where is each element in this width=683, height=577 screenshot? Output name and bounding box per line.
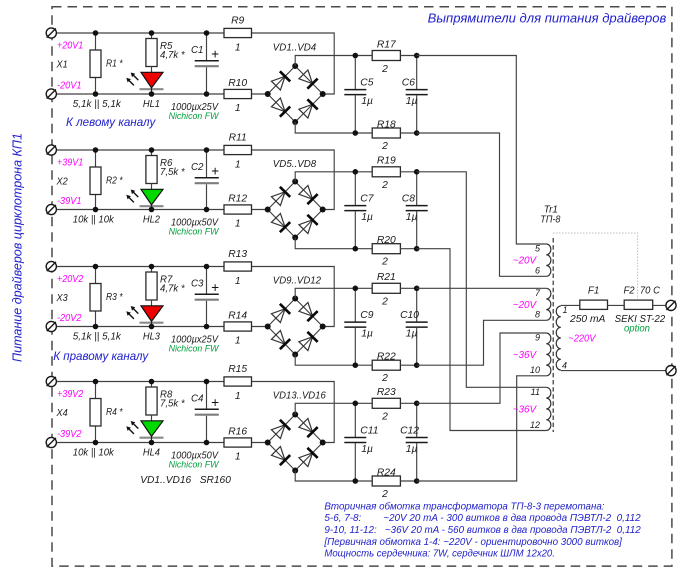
junction R23 left	[353, 401, 359, 407]
svg-text:X4: X4	[56, 408, 68, 419]
junction at R top	[93, 30, 99, 36]
resistor R14	[224, 322, 252, 331]
svg-text:К левому каналу: К левому каналу	[66, 115, 156, 129]
svg-text:1µ: 1µ	[406, 328, 418, 339]
junction R22 left	[353, 362, 359, 368]
svg-text:Выпрямители для питания драйве: Выпрямители для питания драйверов	[428, 11, 667, 26]
junction R18 left	[353, 130, 359, 136]
terminal X3 minus	[46, 321, 56, 331]
svg-text:1: 1	[235, 276, 241, 287]
wire to transformer winding (upper)	[417, 56, 547, 245]
LED arrows HL1	[128, 80, 134, 86]
terminal X1 plus	[46, 28, 56, 38]
wire R10 right to bridge left	[252, 93, 268, 95]
svg-text:-20V2: -20V2	[57, 313, 82, 324]
svg-text:X3: X3	[56, 293, 68, 304]
wire to transformer winding (lower)	[417, 376, 547, 481]
resistor R18	[355, 132, 372, 134]
svg-text:5,1k || 5,1k: 5,1k || 5,1k	[73, 331, 122, 342]
svg-text:1: 1	[563, 305, 568, 315]
junction at HL top	[149, 379, 155, 385]
terminal X2 minus	[46, 204, 56, 214]
resistor R11	[224, 145, 252, 154]
capacitor C7	[354, 172, 356, 205]
LED HL2	[141, 189, 163, 205]
svg-text:2: 2	[381, 297, 388, 308]
svg-text:R24: R24	[377, 467, 396, 478]
svg-text:1µ: 1µ	[361, 212, 373, 223]
terminal X4 minus	[46, 437, 56, 447]
svg-text:1µ: 1µ	[361, 328, 373, 339]
svg-text:R4 *: R4 *	[106, 407, 123, 418]
svg-text:1µ: 1µ	[406, 96, 418, 107]
svg-text:5,1k || 5,1k: 5,1k || 5,1k	[73, 99, 122, 110]
svg-text:VD1..VD16 SR160: VD1..VD16 SR160	[140, 475, 231, 486]
svg-text:9: 9	[535, 333, 540, 343]
wire bridge top to filter rail	[295, 288, 355, 298]
resistor R19	[355, 171, 372, 173]
wire bridge bottom to filter rail	[295, 471, 355, 482]
junction R22 right	[414, 362, 420, 368]
resistor R9	[224, 28, 252, 37]
svg-text:C12: C12	[400, 425, 419, 436]
svg-text:HL4: HL4	[143, 448, 160, 459]
svg-text:HL3: HL3	[143, 332, 160, 343]
svg-text:Мощность сердечника: 7W, серде: Мощность сердечника: 7W, сердечник ШЛМ 1…	[324, 549, 555, 560]
svg-text:option: option	[624, 323, 650, 334]
junction at R top	[93, 147, 99, 153]
svg-text:R2 *: R2 *	[106, 176, 123, 187]
svg-text:X2: X2	[56, 177, 68, 188]
svg-text:R18: R18	[377, 119, 396, 130]
resistor R17	[355, 55, 372, 57]
wire top rail X2	[51, 149, 224, 151]
svg-text:5-6, 7-8: ~20V 20 mA -: 5-6, 7-8: ~20V 20 mA - 300 витков в два …	[324, 513, 641, 524]
junction at HL bottom	[149, 207, 155, 213]
svg-text:6: 6	[535, 266, 540, 276]
svg-text:R14: R14	[228, 311, 247, 322]
svg-text:+39V1: +39V1	[57, 158, 83, 169]
transformer primary winding 1-4	[556, 306, 561, 370]
junction at R bottom	[93, 440, 99, 446]
wire bridge top to filter rail	[295, 56, 355, 67]
svg-text:2: 2	[381, 64, 388, 75]
terminal X1 minus	[46, 89, 56, 99]
svg-text:C1: C1	[191, 45, 204, 56]
svg-text:Nichicon FW: Nichicon FW	[169, 226, 220, 237]
svg-text:8: 8	[535, 310, 540, 320]
junction R17 right	[414, 53, 420, 59]
terminal mains N	[666, 366, 676, 376]
svg-text:4,7k *: 4,7k *	[160, 283, 186, 294]
capacitor C11	[354, 403, 356, 437]
resistor R22	[355, 364, 372, 366]
junction R23 right	[414, 401, 420, 407]
junction at HL top	[149, 147, 155, 153]
junction at HL top	[149, 264, 155, 270]
capacitor C6	[416, 56, 418, 90]
winding 7-8	[546, 288, 551, 320]
svg-text:Nichicon FW: Nichicon FW	[169, 343, 220, 354]
wire bottom rail X2	[51, 209, 224, 211]
svg-text:VD9..VD12: VD9..VD12	[273, 275, 321, 286]
svg-text:+20V1: +20V1	[57, 41, 83, 52]
LED HL3	[141, 306, 163, 322]
svg-text:9-10, 11-12: ~36V 20 mA - 56: 9-10, 11-12: ~36V 20 mA - 560 витков в д…	[324, 525, 641, 536]
resistor R4	[95, 382, 97, 399]
resistor R10	[224, 89, 252, 98]
wire bottom rail X4	[51, 442, 224, 444]
svg-text:2: 2	[381, 412, 388, 423]
svg-text:F1: F1	[588, 285, 600, 296]
wire top rail X1	[51, 32, 224, 34]
wire R15 right, down to bridge right node	[252, 382, 335, 443]
svg-text:250 mA: 250 mA	[569, 314, 606, 325]
wire to transformer winding (lower)	[417, 133, 547, 276]
svg-text:Вторичная обмотка трансформато: Вторичная обмотка трансформатора ТП-8-3 …	[324, 500, 604, 512]
wire bridge bottom to filter rail	[295, 355, 355, 366]
junction at HL top	[149, 30, 155, 36]
capacitor C5	[354, 56, 356, 90]
junction R21 left	[353, 286, 359, 292]
wire bottom rail X1	[51, 93, 224, 95]
LED arrows HL2	[128, 197, 134, 203]
svg-text:10k || 10k: 10k || 10k	[73, 447, 115, 458]
svg-text:1µ: 1µ	[361, 96, 373, 107]
svg-text:4,7k *: 4,7k *	[160, 50, 186, 61]
svg-text:Nichicon FW: Nichicon FW	[169, 111, 220, 122]
terminal X3 plus	[46, 261, 56, 271]
resistor R24	[355, 480, 372, 482]
resistor R3	[95, 267, 97, 284]
svg-text:R16: R16	[228, 427, 247, 438]
svg-text:1: 1	[235, 219, 241, 230]
junction R18 right	[414, 130, 420, 136]
resistor R2	[95, 150, 97, 167]
junction R21 right	[414, 286, 420, 292]
resistor R23	[355, 402, 372, 404]
junction at C bottom	[204, 207, 210, 213]
svg-text:+: +	[211, 46, 219, 61]
fuse F2	[624, 300, 653, 309]
wire pin4 to terminal	[561, 370, 671, 372]
junction at C top	[204, 147, 210, 153]
wire bridge bottom to filter rail	[295, 122, 355, 133]
svg-text:[Первичная обмотка 1-4: ~220V: [Первичная обмотка 1-4: ~220V - ориентир…	[323, 536, 623, 548]
LED arrows HL4	[128, 428, 134, 434]
svg-text:12: 12	[530, 420, 540, 430]
LED HL1	[141, 72, 163, 88]
junction at C top	[204, 264, 210, 270]
svg-text:R22: R22	[377, 352, 396, 363]
svg-text:-20V1: -20V1	[57, 81, 82, 92]
svg-text:1: 1	[235, 391, 241, 402]
svg-text:C6: C6	[402, 78, 415, 89]
svg-text:1: 1	[235, 43, 241, 54]
svg-text:C3: C3	[191, 279, 204, 290]
svg-text:HL1: HL1	[143, 99, 160, 110]
wire to transformer winding (lower)	[417, 320, 547, 365]
svg-text:C7: C7	[360, 194, 374, 205]
resistor R15	[224, 377, 252, 386]
resistor R16	[224, 438, 252, 447]
wire R13 right, down to bridge right node	[252, 267, 335, 327]
svg-text:К правому каналу: К правому каналу	[53, 349, 149, 363]
capacitor C4 (electrolytic)	[206, 382, 208, 409]
thermal link dotted line to F2	[553, 233, 637, 299]
svg-text:C2: C2	[191, 162, 204, 173]
svg-text:R23: R23	[377, 387, 396, 398]
junction at R top	[93, 264, 99, 270]
junction at R bottom	[93, 324, 99, 330]
svg-text:R19: R19	[377, 156, 396, 167]
LED arrows HL3	[128, 313, 134, 319]
svg-text:2: 2	[381, 489, 388, 500]
svg-text:~36V: ~36V	[513, 350, 538, 361]
resistor R6	[151, 150, 153, 156]
svg-text:4: 4	[562, 361, 567, 371]
bridge rectifier VD13..VD16	[268, 415, 296, 443]
capacitor C12	[416, 403, 418, 437]
winding 5-6	[546, 244, 551, 276]
junction at C top	[204, 379, 210, 385]
wire pin1 to fuse F1	[561, 304, 580, 306]
svg-text:ТП-8: ТП-8	[540, 215, 560, 226]
svg-text:1µ: 1µ	[361, 444, 373, 455]
resistor R12	[224, 205, 252, 214]
svg-text:~20V: ~20V	[513, 300, 538, 311]
svg-text:R17: R17	[377, 39, 397, 50]
terminal mains L	[666, 300, 676, 310]
wire R16 right to bridge left	[252, 442, 268, 444]
bridge rectifier VD5..VD8	[268, 182, 296, 210]
svg-text:R13: R13	[228, 249, 247, 260]
capacitor C2 (electrolytic)	[206, 150, 208, 177]
svg-text:Nichicon FW: Nichicon FW	[169, 459, 220, 470]
svg-text:10k || 10k: 10k || 10k	[73, 214, 115, 225]
svg-text:+: +	[211, 163, 219, 178]
resistor R13	[224, 262, 252, 271]
svg-text:R3 *: R3 *	[106, 292, 123, 303]
resistor R1	[95, 33, 97, 50]
winding 9-10	[546, 333, 551, 376]
resistor R21	[355, 287, 372, 289]
svg-text:10: 10	[530, 365, 540, 375]
svg-text:2: 2	[381, 373, 388, 384]
LED HL4	[141, 421, 163, 437]
svg-text:HL2: HL2	[143, 215, 160, 226]
fuse F1	[580, 300, 608, 309]
svg-text:~220V: ~220V	[568, 333, 596, 344]
svg-text:-39V1: -39V1	[57, 196, 82, 207]
wire bridge top to filter rail	[295, 172, 355, 182]
svg-text:~36V: ~36V	[513, 404, 538, 415]
svg-text:7,5k *: 7,5k *	[160, 398, 186, 409]
junction at C bottom	[204, 440, 210, 446]
wire bridge bottom to filter rail	[295, 238, 355, 249]
svg-text:2: 2	[381, 141, 388, 152]
svg-text:1µ: 1µ	[406, 444, 418, 455]
svg-text:1: 1	[235, 452, 241, 463]
svg-text:-39V2: -39V2	[57, 429, 82, 440]
resistor R8	[151, 382, 153, 388]
resistor R7	[151, 267, 153, 273]
junction at C bottom	[204, 324, 210, 330]
junction at R top	[93, 379, 99, 385]
svg-text:X1: X1	[56, 60, 68, 71]
svg-text:VD13..VD16: VD13..VD16	[273, 390, 326, 401]
svg-text:1µ: 1µ	[406, 212, 418, 223]
svg-text:Питание драйверов цирклотрона: Питание драйверов цирклотрона КП1	[10, 133, 25, 362]
wire top rail X4	[51, 381, 224, 383]
resistor R5	[151, 33, 153, 39]
svg-text:~20V: ~20V	[513, 256, 538, 267]
svg-text:VD1..VD4: VD1..VD4	[273, 43, 317, 54]
svg-text:R15: R15	[228, 364, 247, 375]
svg-text:C4: C4	[191, 394, 204, 405]
wire R12 right to bridge left	[252, 209, 268, 211]
junction R20 right	[414, 246, 420, 252]
junction R24 right	[414, 478, 420, 484]
transformer core	[552, 238, 554, 432]
svg-text:+20V2: +20V2	[57, 274, 84, 285]
junction at C bottom	[204, 91, 210, 97]
svg-text:C5: C5	[360, 78, 373, 89]
svg-text:C9: C9	[360, 310, 373, 321]
capacitor C3 (electrolytic)	[206, 267, 208, 294]
svg-text:11: 11	[531, 387, 540, 397]
svg-text:1: 1	[235, 160, 241, 171]
wire F1 to F2	[608, 304, 625, 306]
junction R19 left	[353, 169, 359, 175]
svg-text:R11: R11	[229, 133, 247, 144]
junction at HL bottom	[149, 91, 155, 97]
capacitor C1 (electrolytic)	[206, 33, 208, 60]
bridge rectifier VD9..VD12	[268, 299, 296, 327]
wire R14 right to bridge left	[252, 326, 268, 328]
wire bridge top to filter rail	[295, 403, 355, 414]
winding 11-12	[546, 387, 551, 430]
junction at C top	[204, 30, 210, 36]
svg-text:C11: C11	[360, 425, 378, 436]
junction at HL bottom	[149, 324, 155, 330]
junction R19 right	[414, 169, 420, 175]
resistor R20	[355, 248, 372, 250]
svg-text:+39V2: +39V2	[57, 389, 84, 400]
svg-text:+: +	[211, 280, 219, 295]
svg-text:1: 1	[235, 103, 241, 114]
svg-text:C8: C8	[402, 194, 415, 205]
junction R17 left	[353, 53, 359, 59]
svg-text:+: +	[211, 395, 219, 410]
svg-text:R21: R21	[377, 272, 396, 283]
junction R24 left	[353, 478, 359, 484]
junction at R bottom	[93, 91, 99, 97]
wire top rail X3	[51, 266, 224, 268]
terminal X2 plus	[46, 145, 56, 155]
junction R20 left	[353, 246, 359, 252]
svg-text:VD5..VD8: VD5..VD8	[273, 159, 317, 170]
terminal X4 plus	[46, 376, 56, 386]
svg-text:R20: R20	[377, 235, 396, 246]
junction at HL bottom	[149, 440, 155, 446]
junction at R bottom	[93, 207, 99, 213]
wire to transformer winding (lower)	[417, 249, 547, 431]
wire to transformer winding (upper)	[417, 172, 547, 387]
svg-text:2: 2	[381, 257, 388, 268]
bridge rectifier VD1..VD4	[268, 66, 296, 94]
svg-text:R10: R10	[228, 78, 247, 89]
svg-text:1: 1	[235, 336, 241, 347]
wire bottom rail X3	[51, 326, 224, 328]
svg-text:R1 *: R1 *	[106, 59, 123, 70]
svg-text:C10: C10	[400, 310, 419, 321]
wire to transformer winding (upper)	[417, 333, 547, 403]
svg-text:2: 2	[381, 180, 388, 191]
wire R11 right, down to bridge right node	[252, 150, 335, 210]
svg-text:7,5k *: 7,5k *	[160, 167, 186, 178]
svg-text:R12: R12	[228, 194, 247, 205]
wire to transformer winding (upper)	[417, 287, 547, 289]
capacitor C10	[416, 288, 418, 321]
wire F2 to terminal	[653, 304, 671, 306]
wire R9 right, down to bridge right node	[252, 33, 335, 94]
svg-text:R9: R9	[231, 16, 244, 27]
capacitor C8	[416, 172, 418, 205]
svg-text:F2 70 C: F2 70 C	[624, 285, 661, 296]
capacitor C9	[354, 288, 356, 321]
